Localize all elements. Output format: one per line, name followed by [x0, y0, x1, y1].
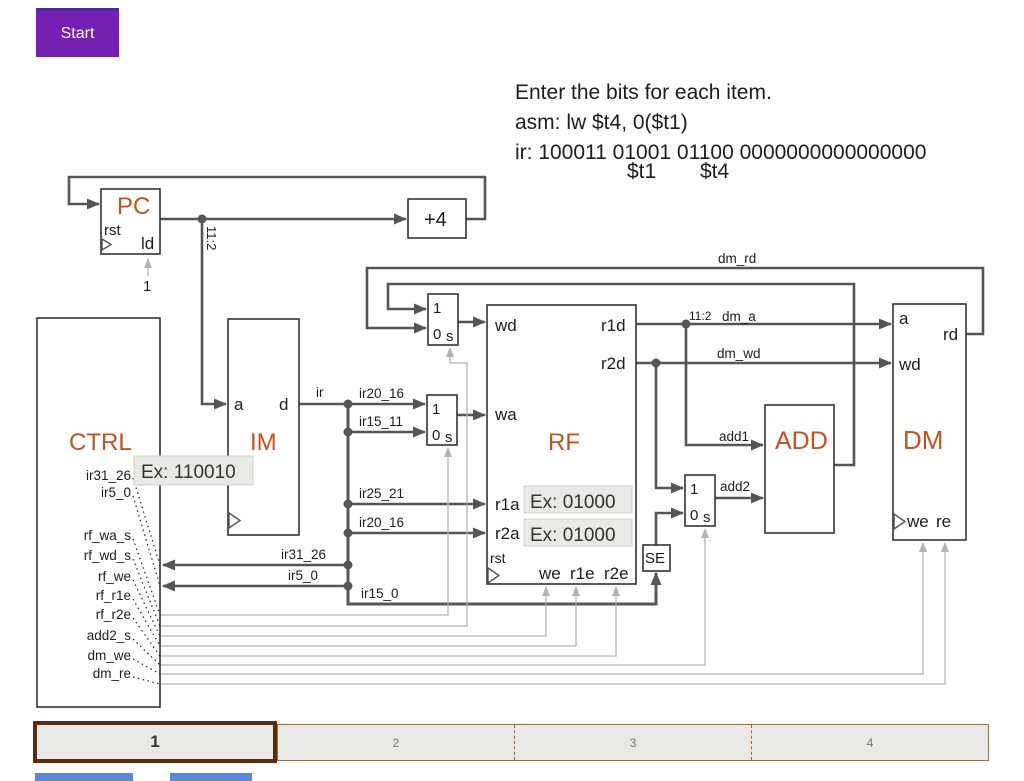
svg-text:d: d	[279, 395, 288, 414]
svg-text:s: s	[446, 328, 454, 345]
svg-text:11:2: 11:2	[204, 226, 219, 250]
svg-text:rst: rst	[104, 222, 121, 239]
svg-text:rf_wd_s: rf_wd_s	[84, 548, 132, 563]
svg-text:dm_a: dm_a	[722, 309, 756, 324]
svg-text:11:2: 11:2	[689, 309, 712, 323]
svg-text:IM: IM	[250, 429, 277, 456]
svg-text:r2d: r2d	[601, 354, 626, 373]
svg-text:Ex: 110010: Ex: 110010	[141, 462, 236, 483]
svg-text:r2e: r2e	[604, 564, 629, 583]
svg-text:a: a	[234, 395, 244, 414]
svg-text:we: we	[906, 512, 929, 531]
svg-text:re: re	[936, 512, 951, 531]
svg-text:ld: ld	[141, 234, 154, 253]
svg-text:dm_re: dm_re	[93, 666, 131, 681]
svg-text:rf_wa_s: rf_wa_s	[84, 528, 132, 543]
svg-text:ir20_16: ir20_16	[359, 515, 404, 530]
svg-text:PC: PC	[117, 193, 150, 220]
svg-text:ir31_26: ir31_26	[281, 547, 326, 562]
svg-text:0: 0	[433, 326, 441, 343]
svg-text:rf_r1e: rf_r1e	[96, 588, 131, 603]
svg-text:ir31_26: ir31_26	[86, 468, 131, 483]
svg-text:wa: wa	[494, 405, 517, 424]
svg-text:s: s	[703, 509, 711, 526]
svg-text:ir20_16: ir20_16	[359, 386, 404, 401]
svg-text:a: a	[899, 309, 909, 328]
svg-text:Ex: 01000: Ex: 01000	[530, 525, 616, 546]
svg-text:1: 1	[690, 481, 698, 498]
svg-text:0: 0	[432, 427, 440, 444]
svg-text:SE: SE	[645, 550, 665, 567]
svg-text:RF: RF	[548, 429, 580, 456]
svg-text:dm_we: dm_we	[87, 648, 131, 663]
svg-text:ir: ir	[316, 385, 324, 400]
svg-text:1: 1	[143, 278, 151, 295]
svg-text:DM: DM	[903, 425, 943, 455]
svg-text:dm_wd: dm_wd	[717, 346, 761, 361]
svg-text:ir5_0: ir5_0	[288, 568, 318, 583]
svg-text:1: 1	[433, 300, 441, 317]
svg-text:ir15_0: ir15_0	[361, 586, 399, 601]
svg-text:ir25_21: ir25_21	[359, 486, 404, 501]
svg-text:r1a: r1a	[495, 495, 520, 514]
svg-text:0: 0	[690, 507, 698, 524]
svg-text:ir15_11: ir15_11	[359, 414, 403, 429]
svg-text:CTRL: CTRL	[69, 429, 132, 456]
svg-text:add2_s: add2_s	[87, 628, 132, 643]
svg-text:rf_we: rf_we	[98, 569, 131, 584]
svg-text:s: s	[445, 429, 453, 446]
svg-text:add2: add2	[720, 479, 750, 494]
svg-text:+4: +4	[424, 209, 447, 231]
svg-text:ADD: ADD	[775, 427, 828, 455]
svg-text:dm_rd: dm_rd	[718, 251, 756, 266]
svg-text:r1d: r1d	[601, 316, 626, 335]
svg-text:rf_r2e: rf_r2e	[96, 607, 131, 622]
svg-text:1: 1	[432, 401, 440, 418]
svg-text:r1e: r1e	[570, 564, 595, 583]
svg-text:rst: rst	[490, 550, 506, 566]
svg-text:rd: rd	[943, 325, 958, 344]
svg-text:add1: add1	[719, 429, 749, 444]
svg-text:wd: wd	[898, 355, 921, 374]
svg-text:Ex: 01000: Ex: 01000	[530, 492, 616, 513]
svg-text:we: we	[538, 564, 561, 583]
svg-text:ir5_0: ir5_0	[101, 485, 131, 500]
svg-text:wd: wd	[494, 316, 517, 335]
svg-text:r2a: r2a	[495, 524, 520, 543]
